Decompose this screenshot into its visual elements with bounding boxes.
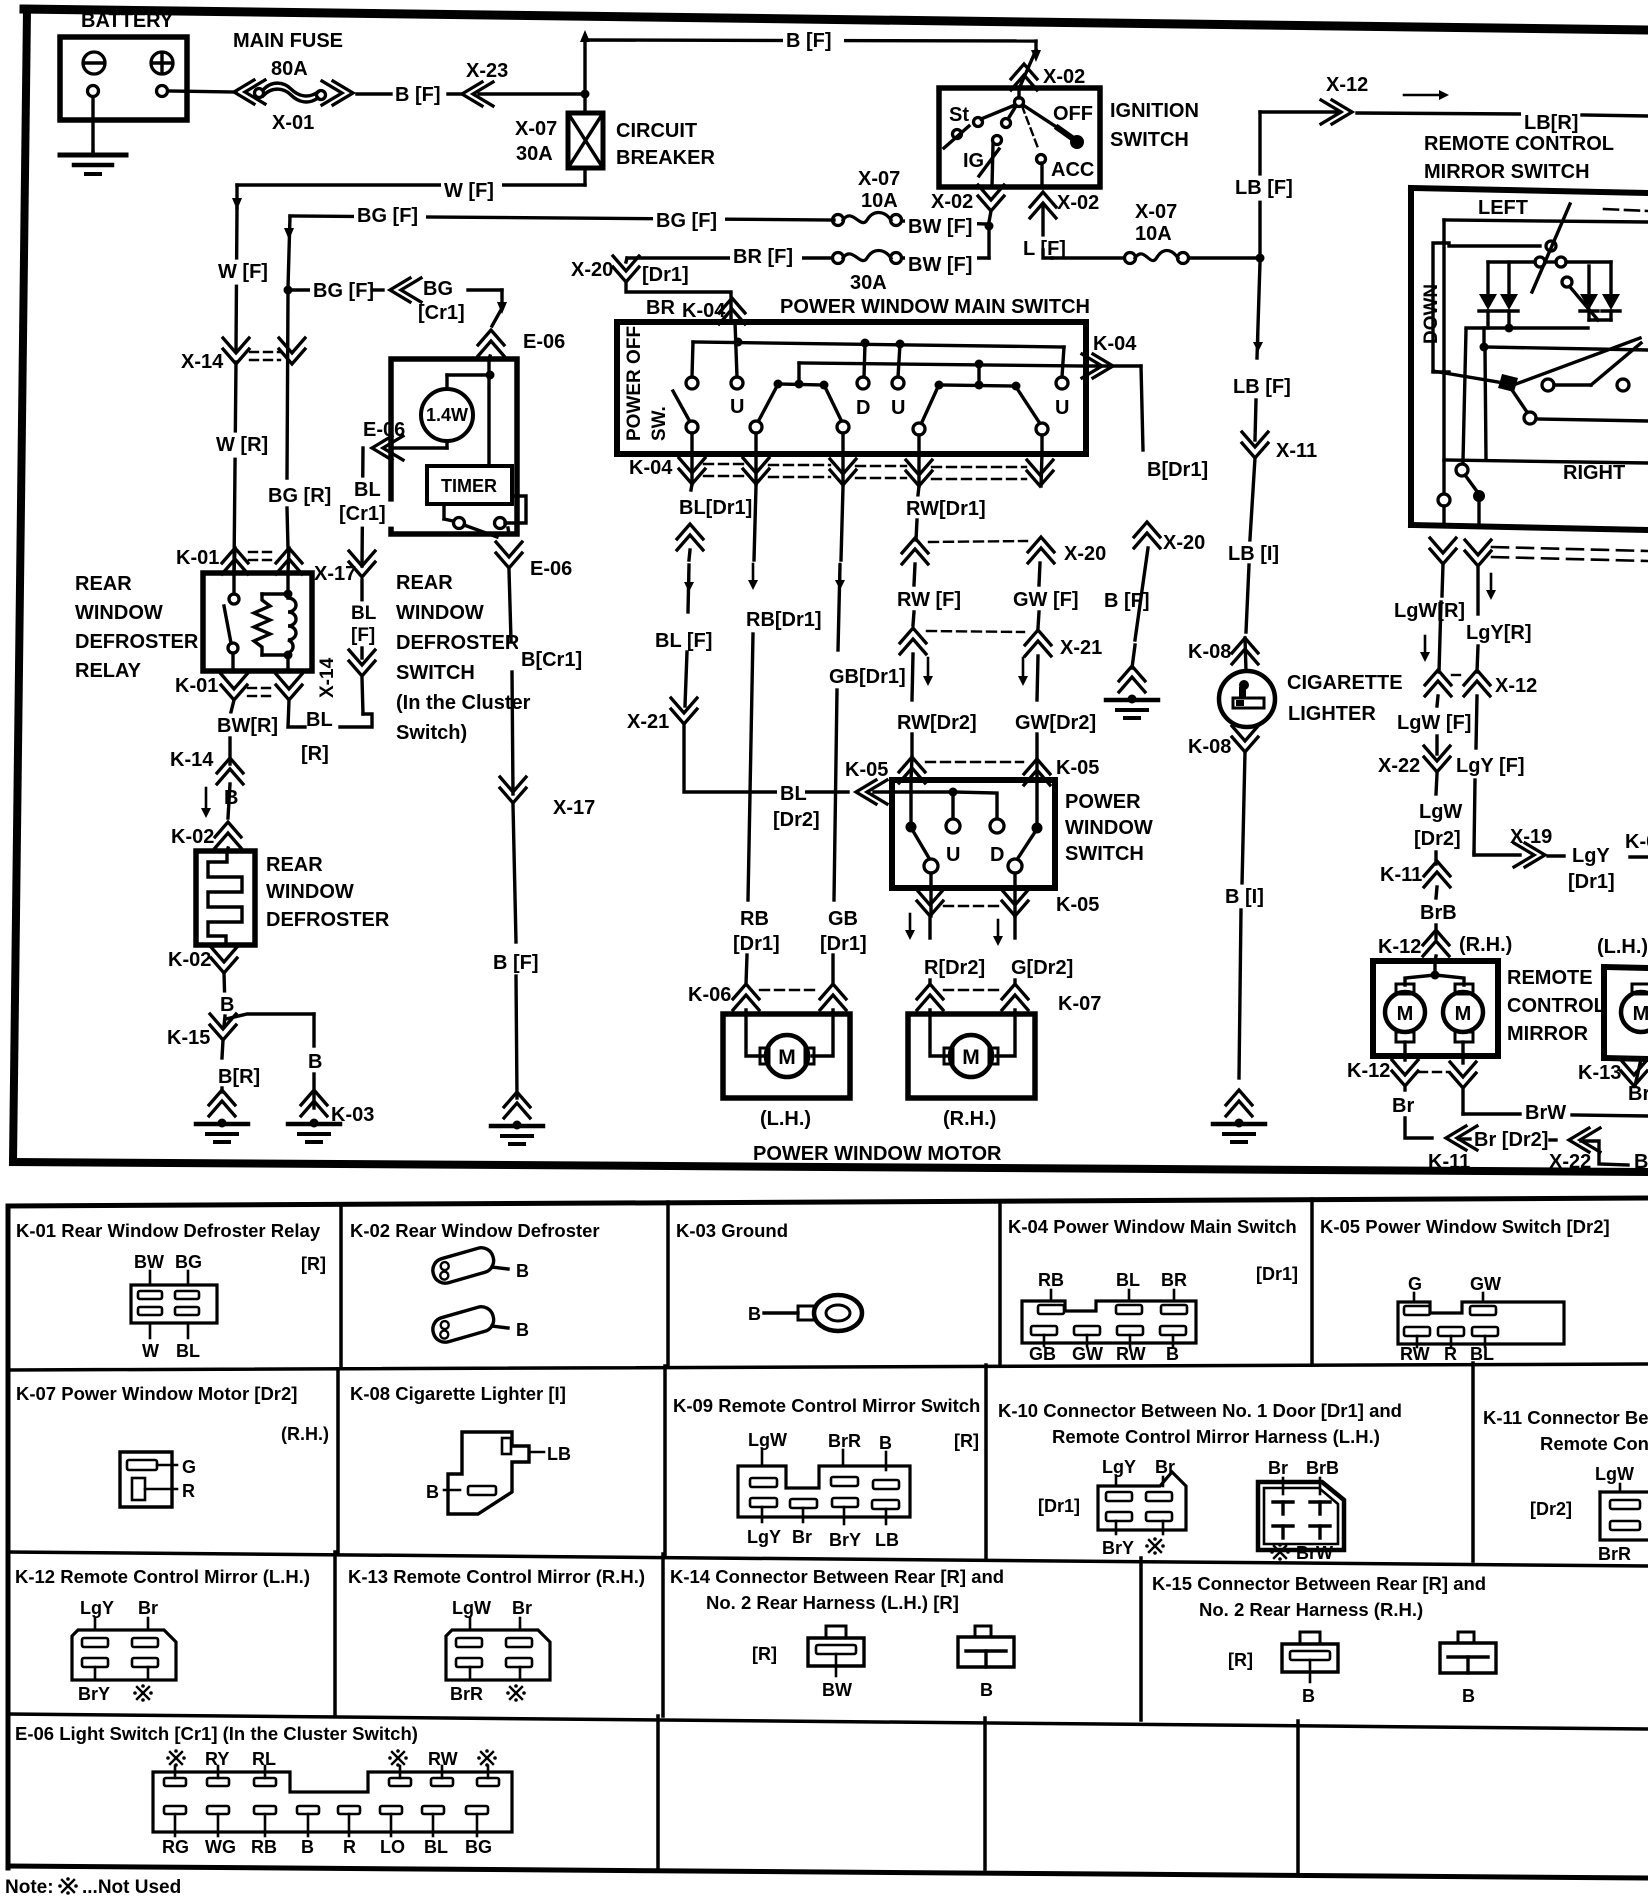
svg-text:GW: GW: [1072, 1344, 1103, 1364]
svg-text:B: B: [220, 994, 234, 1016]
contact U feed: [735, 322, 737, 377]
svg-text:Br [Dr2]: Br [Dr2]: [1474, 1129, 1548, 1151]
svg-text:GB: GB: [1029, 1344, 1056, 1364]
connector K-15: [210, 1025, 236, 1040]
svg-text:BG [F]: BG [F]: [656, 210, 717, 232]
wire BL [F] down: [688, 565, 689, 612]
svg-text:10A: 10A: [1135, 223, 1172, 245]
wire BG [Cr1] corner down: [468, 288, 502, 291]
diode D1: [1486, 262, 1489, 294]
svg-text:B: B: [1634, 1151, 1648, 1173]
relay switch contact upper: [232, 573, 235, 594]
connector X-20 pair on RW/GW: [902, 538, 928, 553]
svg-text:B[Dr1]: B[Dr1]: [1147, 459, 1208, 481]
svg-text:[Dr1]: [Dr1]: [820, 933, 867, 955]
svg-text:BW [F]: BW [F]: [908, 216, 972, 238]
connector X-21 on BL wire: [671, 709, 697, 724]
svg-text:BL: BL: [1470, 1344, 1494, 1364]
svg-text:M: M: [962, 1046, 980, 1069]
remote control mirror RH box: [1373, 961, 1498, 1056]
svg-text:X-21: X-21: [627, 711, 669, 733]
wire BW [F] lower: [902, 256, 989, 259]
wire from bus down: [1463, 330, 1466, 461]
left rocker lever left: [759, 388, 776, 420]
svg-text:BL: BL: [176, 1341, 200, 1361]
wire B [F] to ground: [1135, 548, 1148, 640]
svg-text:[Dr1]: [Dr1]: [642, 264, 689, 286]
wire battery negative to ground: [91, 97, 94, 152]
wire junction to circuit breaker: [583, 94, 586, 113]
wire circuit breaker to W [F] line: [583, 168, 586, 185]
svg-text:REMOTE: REMOTE: [1507, 967, 1593, 989]
svg-text:K-13 Remote Control Mirror (R.: K-13 Remote Control Mirror (R.H.): [348, 1566, 645, 1587]
svg-text:(R.H.): (R.H.): [1459, 934, 1512, 956]
svg-text:B: B: [1166, 1344, 1179, 1364]
ACC contact: [1037, 155, 1046, 164]
svg-text:K-08: K-08: [1188, 736, 1231, 758]
wire BrB: [1436, 887, 1437, 898]
wire BR to K-04: [626, 282, 731, 322]
connector X-23: [462, 82, 482, 106]
wire relay to BL jog: [288, 700, 305, 727]
svg-text:U: U: [891, 397, 905, 419]
svg-text:(L.H.): (L.H.): [760, 1108, 811, 1130]
main fuse F1 80A: [255, 89, 264, 98]
wire W [F] vertical: [236, 208, 237, 350]
relay switch contact lower: [228, 643, 238, 653]
K-08 connector: [448, 1432, 529, 1514]
ignition lever to St: [981, 105, 1015, 119]
ignition dashed lever: [1022, 106, 1038, 148]
svg-text:LO: LO: [380, 1837, 405, 1857]
svg-text:K-02: K-02: [168, 949, 211, 971]
svg-text:B: B: [879, 1433, 892, 1453]
svg-text:St: St: [949, 104, 969, 126]
svg-text:K-04: K-04: [682, 300, 726, 322]
svg-text:GB: GB: [828, 908, 858, 930]
svg-text:BrY: BrY: [829, 1530, 861, 1550]
svg-text:(L.H.): (L.H.): [1597, 936, 1648, 958]
relay resistor: [254, 594, 270, 655]
svg-text:BW[R]: BW[R]: [217, 715, 278, 737]
svg-text:B: B: [224, 787, 238, 809]
relay coil: [288, 598, 296, 653]
IG contact: [993, 136, 1002, 145]
relay coil feed: [286, 573, 289, 591]
motor LH wires: [746, 1010, 764, 1056]
K-07 connector: [120, 1452, 172, 1507]
wire GW[Dr2]: [1037, 656, 1038, 700]
wire GW [F]: [1039, 563, 1040, 585]
svg-text:B: B: [1462, 1686, 1475, 1706]
contacts mid right: [1542, 379, 1554, 391]
svg-text:M: M: [1455, 1003, 1472, 1025]
svg-text:Br: Br: [792, 1527, 812, 1547]
svg-text:GW [F]: GW [F]: [1013, 589, 1079, 611]
mirror switch box: [1411, 188, 1648, 193]
motor LH M1: [766, 1035, 808, 1077]
svg-text:K-07: K-07: [1058, 993, 1101, 1015]
svg-text:B[Cr1]: B[Cr1]: [521, 649, 582, 671]
svg-text:DEFROSTER: DEFROSTER: [75, 631, 199, 653]
svg-text:X-07: X-07: [858, 168, 900, 190]
svg-text:BL: BL: [1116, 1270, 1140, 1290]
svg-text:RELAY: RELAY: [75, 660, 142, 682]
wire LB [F] riser: [1258, 112, 1261, 255]
svg-text:SWITCH: SWITCH: [396, 662, 475, 684]
wire LB[R] to right edge: [1357, 113, 1520, 114]
wire X-23 to junction: [479, 92, 585, 95]
svg-text:GB[Dr1]: GB[Dr1]: [829, 666, 906, 688]
svg-text:B: B: [1302, 1686, 1315, 1706]
svg-text:BG [F]: BG [F]: [357, 205, 418, 227]
corner X-20 drop on BR line: [626, 258, 627, 262]
wire BW[R]: [231, 700, 234, 712]
relay switch lever: [224, 606, 231, 643]
wire G[Dr2]: [1013, 916, 1016, 938]
svg-text:BG [R]: BG [R]: [268, 485, 331, 507]
svg-text:LB: LB: [875, 1530, 899, 1550]
connector X-20 on B wire: [1134, 522, 1160, 537]
label B [F] top line: [783, 29, 844, 54]
svg-text:LIGHTER: LIGHTER: [1288, 703, 1376, 725]
svg-text:E-06: E-06: [363, 419, 405, 441]
svg-text:LB[R]: LB[R]: [1524, 112, 1578, 134]
svg-text:B [F]: B [F]: [493, 952, 539, 974]
junction node battery feed: [581, 90, 590, 99]
right rocker bus: [977, 364, 980, 385]
svg-text:REAR: REAR: [75, 573, 132, 595]
direction arrows RW GW: [927, 658, 930, 680]
table column borders row4: [656, 1716, 660, 1867]
svg-text:REAR: REAR: [396, 572, 453, 594]
svg-text:D: D: [990, 844, 1004, 866]
K-12 connector: [94, 1618, 97, 1630]
svg-text:BL [F]: BL [F]: [655, 630, 712, 652]
table outer border top: [8, 1198, 1648, 1206]
svg-text:X-07: X-07: [1135, 201, 1177, 223]
ground below B [F]: [504, 1092, 530, 1107]
svg-text:[Dr2]: [Dr2]: [1530, 1499, 1572, 1519]
wire fuse to LB junction: [1189, 256, 1258, 259]
svg-text:IGNITION: IGNITION: [1110, 100, 1199, 122]
ground K-03: [301, 1090, 327, 1105]
wire L [F] from ACC: [1041, 205, 1044, 240]
svg-text:Br: Br: [138, 1598, 158, 1618]
svg-text:LB: LB: [547, 1444, 571, 1464]
svg-text:MIRROR SWITCH: MIRROR SWITCH: [1424, 161, 1590, 183]
wire R[Dr2]: [928, 916, 931, 938]
BL feed inside switch: [874, 790, 953, 793]
direction arrow on B wire: [205, 788, 208, 812]
svg-text:X-23: X-23: [466, 60, 508, 82]
right rocker lever left: [922, 389, 937, 422]
svg-text:BrR: BrR: [828, 1431, 861, 1451]
timer box: [427, 466, 512, 504]
svg-text:[Dr2]: [Dr2]: [773, 809, 820, 831]
svg-text:K-08 Cigarette Lighter [I]: K-08 Cigarette Lighter [I]: [350, 1383, 566, 1404]
contact D: [864, 343, 865, 377]
svg-text:K-11 Connector Betwee: K-11 Connector Betwee: [1483, 1407, 1648, 1428]
ground battery: [60, 153, 126, 158]
connector X-02 below ACC: [1030, 192, 1056, 207]
fuse 30A: [833, 253, 844, 264]
svg-text:BrB: BrB: [1420, 902, 1457, 924]
svg-text:BL: BL: [424, 1837, 448, 1857]
K-10 right connector trapezoid: [1258, 1482, 1344, 1550]
svg-text:WINDOW: WINDOW: [266, 881, 354, 903]
svg-text:R: R: [343, 1837, 356, 1857]
svg-text:BG: BG: [465, 1837, 492, 1857]
left rocker bus: [797, 363, 800, 383]
K-13 connector: [469, 1618, 472, 1630]
svg-text:G: G: [1408, 1274, 1422, 1294]
rail at 347: [1480, 343, 1489, 352]
svg-text:B: B: [516, 1320, 529, 1340]
svg-text:K-13: K-13: [1578, 1062, 1621, 1084]
table bottom border: [8, 1866, 1648, 1878]
svg-text:K-06: K-06: [688, 984, 731, 1006]
svg-text:[R]: [R]: [301, 743, 329, 765]
power off switch lever: [673, 391, 689, 420]
wire B [I] down: [1242, 752, 1245, 885]
motor RH M2: [950, 1035, 992, 1077]
ground left rear: [209, 1090, 235, 1105]
svg-text:B [F]: B [F]: [395, 84, 441, 106]
wire Br down from mirror: [1403, 1086, 1406, 1090]
K-02 terminal 1: [430, 1245, 496, 1286]
mirror LH motor partial: [1621, 992, 1648, 1032]
svg-text:No. 2 Rear Harness (L.H.) [R]: No. 2 Rear Harness (L.H.) [R]: [706, 1592, 959, 1613]
connector K-01 body: [149, 1271, 152, 1285]
svg-text:REMOTE CONTROL: REMOTE CONTROL: [1424, 133, 1614, 155]
direction arrow right: [1404, 94, 1443, 97]
svg-text:K-15: K-15: [167, 1027, 210, 1049]
connector X-02 above ignition switch: [1011, 64, 1037, 79]
connector X-17 lower: [500, 788, 526, 803]
wire battery positive to main fuse: [168, 91, 236, 92]
wire BR [F] line: [627, 256, 832, 259]
svg-text:W: W: [142, 1341, 159, 1361]
svg-text:R[Dr2]: R[Dr2]: [924, 957, 985, 979]
contact circles top: [1535, 257, 1545, 267]
motor LH terminals: [760, 1048, 769, 1064]
svg-text:LgW: LgW: [748, 1430, 787, 1450]
table column borders row1: [339, 1204, 343, 1368]
svg-text:BREAKER: BREAKER: [616, 147, 715, 169]
wire BG [R] vertical to relay: [287, 294, 288, 478]
svg-text:BrB: BrB: [1306, 1458, 1339, 1478]
svg-text:[F]: [F]: [351, 625, 375, 646]
branch to D contact: [953, 792, 997, 818]
power window main switch box K-04: [617, 322, 1086, 454]
junction node BG branch: [284, 286, 293, 295]
wire W [R] vertical to relay: [234, 362, 236, 570]
svg-text:X-14: X-14: [181, 351, 224, 373]
wire RW [F]: [914, 564, 915, 585]
wire BL[Dr1]: [691, 484, 692, 490]
svg-text:GW: GW: [1470, 1274, 1501, 1294]
svg-text:BG: BG: [423, 278, 453, 300]
svg-text:10A: 10A: [861, 190, 898, 212]
diode D3: [1587, 266, 1590, 294]
connector E-06 below switch box: [496, 553, 522, 568]
direction arrows below switch: [909, 914, 912, 934]
connector K-14: [217, 758, 243, 773]
rail 2 inside main switch: [799, 363, 1086, 366]
svg-text:LgW: LgW: [1419, 801, 1462, 823]
svg-text:G[Dr2]: G[Dr2]: [1011, 957, 1073, 979]
svg-text:K-14: K-14: [170, 749, 214, 771]
wire RB[Dr1]: [754, 486, 756, 560]
wire LgY[R]: [1476, 566, 1479, 614]
svg-text:B: B: [516, 1261, 529, 1281]
connector X-14 on W wire: [223, 349, 249, 364]
right rocker of window switch: [1035, 780, 1038, 823]
svg-text:Remote Control Mirror Harness: Remote Control Mirror Harness (L.H.): [1052, 1426, 1380, 1447]
svg-text:Br: Br: [1392, 1095, 1414, 1117]
svg-text:K-05: K-05: [1056, 757, 1099, 779]
wire LgW [F]: [1437, 696, 1438, 706]
svg-text:X-14: X-14: [317, 657, 338, 698]
wire BrW: [1461, 1088, 1464, 1114]
svg-text:M: M: [1397, 1003, 1414, 1025]
svg-text:K-08: K-08: [1188, 641, 1231, 663]
svg-text:RW [F]: RW [F]: [897, 589, 961, 611]
wire LgY to X-19: [1472, 852, 1475, 855]
svg-text:LgW[R]: LgW[R]: [1394, 600, 1465, 622]
wire GB[Dr1]: [841, 487, 843, 560]
power window motor RH box: [908, 1014, 1035, 1098]
svg-text:K-10 Connector Between No. 1 D: K-10 Connector Between No. 1 Door [Dr1] …: [998, 1400, 1402, 1421]
big diagonal lever: [1516, 338, 1640, 384]
svg-text:BW [F]: BW [F]: [908, 254, 972, 276]
svg-text:B [F]: B [F]: [786, 30, 832, 52]
connector K-11: [1424, 861, 1450, 876]
connector K-05 pair below switch: [917, 901, 943, 916]
svg-text:U: U: [946, 844, 960, 866]
connector X-19: [1525, 843, 1545, 867]
rear window defroster switch box E-06: [391, 359, 517, 534]
OFF plunger: [1058, 128, 1072, 138]
wire LgW [Dr2]: [1436, 774, 1437, 794]
svg-text:CIRCUIT: CIRCUIT: [616, 120, 697, 142]
battery B1: [60, 37, 187, 120]
svg-text:LB [F]: LB [F]: [1235, 177, 1293, 199]
svg-text:X-22: X-22: [1378, 755, 1420, 777]
left rocker lever right: [826, 389, 841, 420]
svg-text:BL: BL: [306, 709, 333, 731]
svg-text:B: B: [426, 1482, 439, 1502]
corner and arrow down to ignition switch: [1034, 41, 1037, 50]
svg-text:K-15 Connector Between Rear [R: K-15 Connector Between Rear [R] and: [1152, 1573, 1486, 1594]
upper lever diagonal LEFT: [1532, 204, 1570, 292]
svg-text:X-01: X-01: [272, 112, 314, 134]
svg-text:X-02: X-02: [1043, 66, 1085, 88]
svg-text:X-20: X-20: [1163, 532, 1205, 554]
svg-text:G: G: [182, 1457, 196, 1477]
connector K-05 pair above switch: [899, 757, 925, 772]
svg-text:E-06: E-06: [523, 331, 565, 353]
svg-text:LB [I]: LB [I]: [1228, 543, 1279, 565]
svg-text:[R]: [R]: [752, 1644, 777, 1664]
svg-text:B [I]: B [I]: [1225, 886, 1264, 908]
svg-text:LgW: LgW: [1595, 1464, 1634, 1484]
connector E-06 output left: [372, 436, 392, 460]
connector X-22: [1424, 757, 1450, 772]
wire LgY [F]: [1476, 696, 1477, 748]
power window switch box K-05: [892, 780, 1055, 888]
svg-text:K-03 Ground: K-03 Ground: [676, 1220, 788, 1241]
svg-text:B: B: [301, 1837, 314, 1857]
svg-text:ACC: ACC: [1051, 159, 1094, 181]
connector chevrons left of main fuse: [234, 80, 254, 104]
connector X-17 on BG branch: [390, 278, 410, 302]
svg-text:RB: RB: [1038, 1270, 1064, 1290]
ignition lever to OFF: [1023, 105, 1058, 128]
svg-text:BL: BL: [780, 783, 807, 805]
wire BL [R] jog to relay: [362, 678, 363, 714]
ignition switch box: [939, 88, 1100, 187]
svg-text:X-12: X-12: [1326, 74, 1368, 96]
wire LB [I]: [1249, 458, 1255, 555]
connector E-06 into defroster switch: [478, 330, 504, 345]
mirror RH motor right: [1443, 992, 1483, 1032]
svg-text:X-02: X-02: [931, 191, 973, 213]
connector K-12: [1423, 930, 1449, 945]
svg-text:Switch): Switch): [396, 722, 467, 744]
DOWN bracket: [1433, 243, 1449, 372]
svg-text:Br: Br: [1268, 1458, 1288, 1478]
St contact with slash: [953, 130, 962, 139]
diode D3 D4 join to contact: [1589, 318, 1611, 321]
connector X-12: [1332, 100, 1352, 124]
svg-text:X-12: X-12: [1495, 675, 1537, 697]
svg-text:CIGARETTE: CIGARETTE: [1287, 672, 1403, 694]
wire RW[Dr1]: [918, 486, 919, 495]
timer output switch: [442, 504, 445, 519]
svg-text:K-04: K-04: [629, 457, 673, 479]
svg-text:W [F]: W [F]: [218, 261, 268, 283]
svg-text:K-14 Connector Between Rear [R: K-14 Connector Between Rear [R] and: [670, 1566, 1004, 1587]
svg-text:X-07: X-07: [515, 118, 557, 140]
table left border: [6, 1206, 11, 1868]
lamp feed wire: [447, 373, 489, 376]
wire BG [F] branch to cluster switch: [292, 288, 310, 291]
svg-text:K-12 Remote Control Mirror (L.: K-12 Remote Control Mirror (L.H.): [15, 1566, 310, 1587]
svg-text:X-20: X-20: [571, 259, 613, 281]
connector K-01 above relay left: [222, 548, 248, 563]
selector lever: [1512, 390, 1527, 412]
diagram outer border bottom: [13, 1162, 1648, 1172]
corner arrow down on BG line: [288, 216, 290, 288]
svg-text:RW: RW: [1116, 1344, 1146, 1364]
junction BW feed: [985, 222, 994, 231]
svg-text:X-02: X-02: [1057, 192, 1099, 214]
connector X-22 arrow: [1569, 1128, 1589, 1152]
wire RW[Dr2]: [912, 654, 913, 700]
diode D4: [1609, 262, 1612, 294]
junction LB [F]: [1256, 254, 1265, 263]
wire BW [F] to ignition IG: [902, 221, 986, 224]
svg-text:X-22: X-22: [1549, 1151, 1591, 1173]
table column borders row3: [333, 1552, 337, 1714]
svg-text:BL[Dr1]: BL[Dr1]: [679, 497, 752, 519]
svg-text:LgY: LgY: [747, 1527, 781, 1547]
K-10 not-used mark: [1145, 1537, 1165, 1555]
K-05 connector body: [1413, 1293, 1416, 1302]
svg-text:M: M: [1633, 1003, 1648, 1025]
